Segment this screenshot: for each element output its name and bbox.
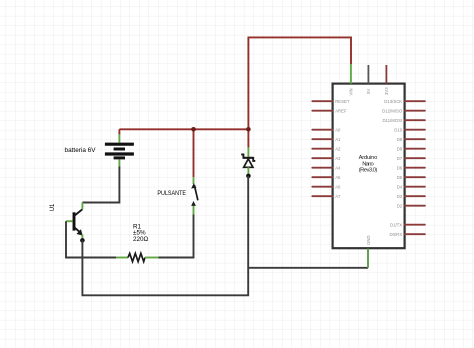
wire: resistor to switch bottom: [159, 215, 194, 258]
junction dot: rail/switch: [191, 127, 196, 132]
transistor emitter pin (green): [81, 235, 83, 241]
Arduino VIN pin (green, connected): [350, 64, 352, 84]
svg-text:D9: D9: [397, 137, 403, 142]
svg-text:D7: D7: [397, 156, 403, 161]
svg-text:PULSANTE: PULSANTE: [157, 190, 186, 197]
svg-text:A2: A2: [335, 146, 341, 151]
junction dot: rail/LED: [246, 127, 251, 132]
svg-text:AREF: AREF: [335, 108, 347, 113]
junction dot below LED: [246, 174, 251, 179]
svg-text:batteria 6V: batteria 6V: [65, 147, 96, 154]
wire: battery- down and left to transistor collector: [82, 167, 119, 203]
svg-text:VIN: VIN: [348, 88, 353, 95]
Arduino 5V pin: [367, 65, 369, 84]
emitter arrowhead: [77, 229, 83, 236]
svg-text:GND: GND: [366, 235, 371, 245]
svg-text:A3: A3: [335, 156, 341, 161]
svg-text:A1: A1: [335, 137, 341, 142]
switch top arrowhead: [191, 183, 196, 188]
svg-text:D8: D8: [397, 146, 403, 151]
Arduino left pin labels: [335, 99, 350, 199]
svg-text:A0: A0: [335, 127, 341, 132]
svg-text:D4: D4: [397, 184, 403, 189]
svg-text:3V3: 3V3: [384, 87, 389, 95]
Arduino Nano U2 body: [333, 84, 405, 249]
base bar: [73, 212, 76, 230]
Arduino right pins (red, unconnected): [405, 101, 425, 234]
switch top pin (green): [193, 177, 195, 184]
wire: emitter net bottom loop: [82, 176, 248, 295]
svg-text:D5: D5: [397, 175, 403, 180]
svg-text:RESET: RESET: [335, 99, 350, 104]
switch bottom arrowhead: [191, 201, 196, 206]
svg-text:D13/SCK: D13/SCK: [384, 99, 402, 104]
Arduino top pin labels: [348, 87, 389, 96]
svg-text:D12/MISO: D12/MISO: [382, 108, 403, 113]
Arduino center label: [359, 155, 378, 173]
transistor base pin (green): [66, 220, 73, 222]
transistor U1 (NPN): [74, 209, 83, 236]
svg-text:(Rev3.0): (Rev3.0): [359, 167, 378, 173]
svg-text:5V: 5V: [366, 89, 371, 94]
emitter diagonal: [75, 227, 81, 233]
LED bottom pin (green): [247, 167, 249, 174]
wire: red vertical through LED node, up to top rail: [247, 37, 249, 147]
svg-text:Arduino: Arduino: [359, 155, 378, 161]
svg-text:D11/MOSI: D11/MOSI: [382, 118, 402, 123]
wire: battery+ to junctions (red rail): [119, 128, 248, 130]
Arduino left pins (red, unconnected): [312, 101, 332, 196]
svg-text:D6: D6: [397, 165, 403, 170]
svg-text:A7: A7: [335, 194, 341, 199]
battery B1 batteria 6V: [105, 144, 134, 158]
switch bottom pin (green): [193, 206, 195, 215]
svg-text:A4: A4: [335, 165, 341, 170]
transistor collector pin (green): [81, 203, 83, 210]
svg-text:D3: D3: [397, 194, 403, 199]
svg-text:D2: D2: [397, 203, 403, 208]
resistor R1 zigzag: [128, 253, 145, 261]
wire: red drop to switch top: [193, 129, 195, 177]
pushbutton switch PULSANTE: [191, 177, 198, 214]
Arduino GND pin (green, connected): [367, 249, 369, 268]
svg-text:D1/TX: D1/TX: [390, 222, 402, 227]
battery positive pin (green, connected): [118, 134, 120, 143]
resistor R1 value label: [133, 223, 149, 243]
wire: base down to resistor row: [66, 221, 116, 257]
wire: top red rail to VIN: [248, 37, 352, 64]
switch lever: [194, 185, 198, 200]
resistor R1 right pin (green): [145, 257, 159, 259]
svg-text:D0/RX: D0/RX: [390, 232, 403, 237]
wire: T branch to Arduino GND: [248, 267, 368, 269]
junction dot at emitter: [80, 238, 85, 243]
anode triangle: [244, 159, 253, 167]
svg-text:A6: A6: [335, 184, 341, 189]
svg-text:Nano: Nano: [362, 161, 374, 167]
cathode bar with hooks: [241, 154, 255, 161]
LED top pin (green): [247, 147, 249, 157]
resistor R1 left pin (green): [116, 257, 128, 259]
svg-text:U1: U1: [49, 203, 56, 211]
battery negative pin (green, connected): [118, 159, 120, 167]
LED D1 (schottky symbol): [241, 147, 255, 174]
svg-text:220Ω: 220Ω: [133, 236, 149, 243]
Arduino 3V3 pin: [385, 65, 387, 84]
collector diagonal: [75, 209, 83, 215]
svg-text:A5: A5: [335, 175, 341, 180]
Arduino right pin labels: [382, 99, 403, 237]
svg-text:D10: D10: [394, 127, 402, 132]
